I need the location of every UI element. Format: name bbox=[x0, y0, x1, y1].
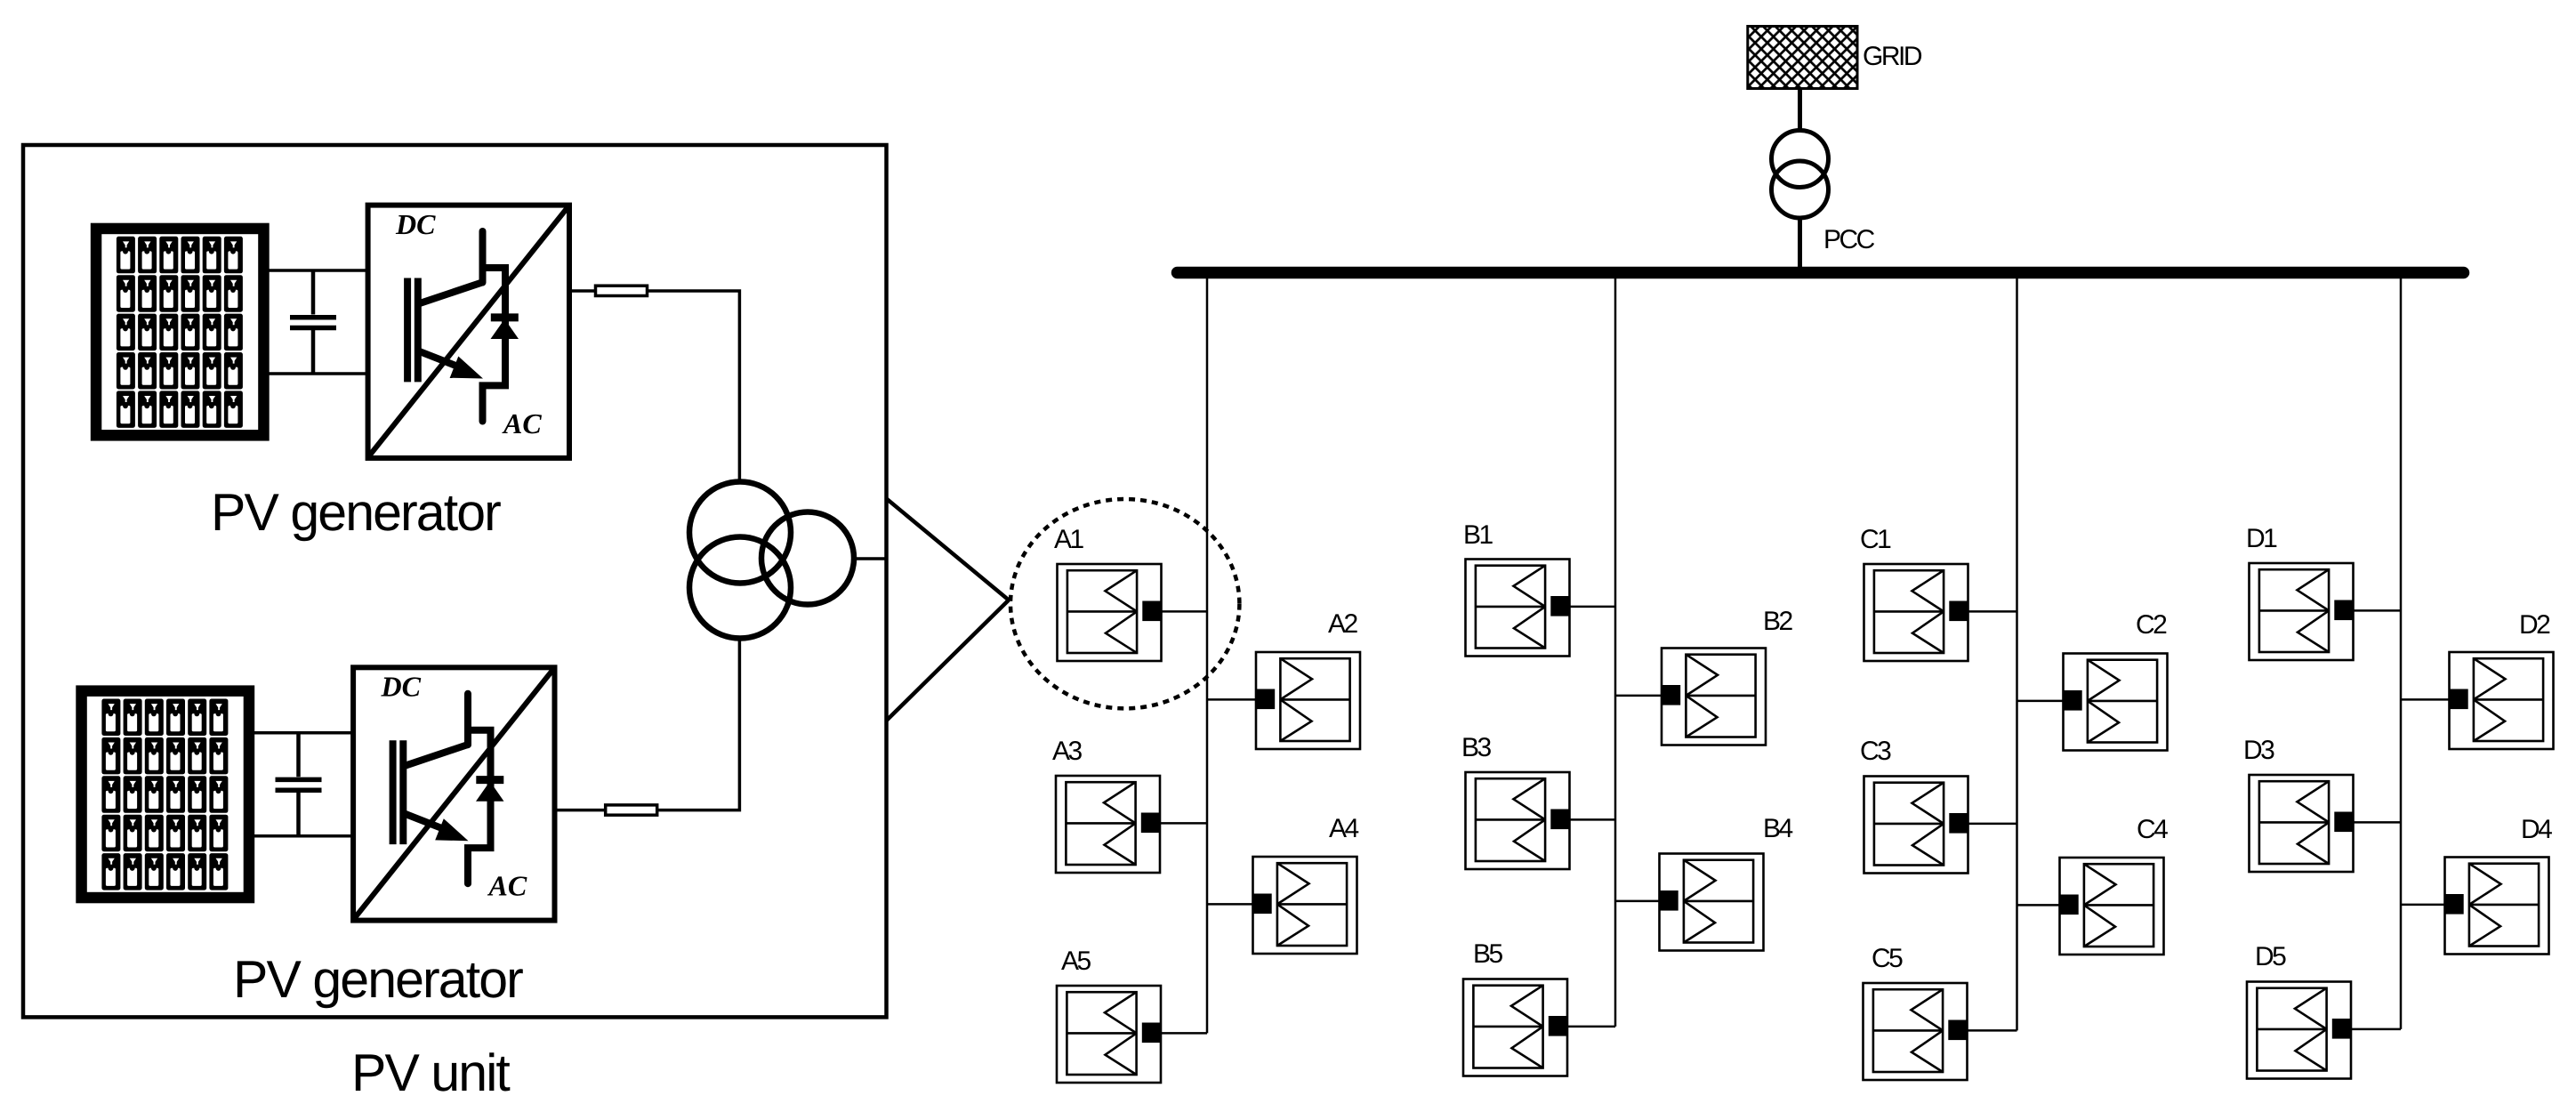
fuse F2 (output of inverter 2) bbox=[555, 809, 606, 812]
wire collector-emitter rail with diode branch bbox=[468, 730, 491, 884]
wire fuse F2 to transformer T1 bbox=[657, 641, 740, 810]
svg-text:A4: A4 bbox=[1329, 814, 1359, 843]
PV unit enclosure box bbox=[23, 145, 887, 1017]
svg-text:PV generator: PV generator bbox=[233, 950, 523, 1009]
PV generator 1 (panel, capacitor, DC/AC inverter) bbox=[96, 205, 569, 458]
svg-text:GRID: GRID bbox=[1863, 42, 1922, 71]
PV generator 2 (panel, capacitor, DC/AC inverter) bbox=[82, 667, 555, 920]
wire D5 to feeder D bbox=[2350, 1028, 2401, 1031]
wire D3 to feeder D bbox=[2353, 821, 2402, 824]
dashed highlight circle around A1 bbox=[1010, 499, 1239, 708]
svg-text:C1: C1 bbox=[1860, 525, 1891, 554]
capacitor C2 (DC link) bbox=[276, 731, 322, 837]
wire B1 to feeder B bbox=[1569, 606, 1616, 608]
PV array panel PV2 bbox=[82, 691, 249, 898]
svg-text:A1: A1 bbox=[1054, 525, 1084, 554]
svg-text:DC: DC bbox=[395, 208, 436, 240]
svg-text:C4: C4 bbox=[2137, 815, 2168, 844]
PV unit symbol B3 bbox=[1466, 772, 1570, 869]
wire feeder A to A4 bbox=[1207, 903, 1254, 906]
wire transformer T1 to box edge bbox=[853, 557, 887, 560]
wire transformer T2 to bus (PCC) bbox=[1798, 218, 1802, 270]
feeder C (vertical line from bus) bbox=[2016, 269, 2018, 1030]
diode D1 (antiparallel) bbox=[491, 318, 519, 339]
wire B3 to feeder B bbox=[1569, 818, 1616, 821]
feeder D (vertical line from bus) bbox=[2400, 269, 2403, 1029]
transistor Q1 (IGBT) bbox=[407, 231, 483, 382]
svg-text:D4: D4 bbox=[2521, 815, 2552, 844]
transistor Q2 (IGBT) bbox=[393, 694, 469, 844]
magnifier line (lower) from PV unit box to A1 bbox=[887, 600, 1010, 721]
PV unit symbol A2 bbox=[1256, 652, 1360, 749]
PV unit symbol C2 bbox=[2064, 654, 2168, 751]
transformer T2 (grid transformer, two circles) bbox=[1772, 131, 1829, 219]
magnifier line (upper) from PV unit box to A1 bbox=[887, 499, 1010, 600]
fuse F1 (output of inverter 1) bbox=[572, 289, 595, 293]
wire D1 to feeder D bbox=[2353, 609, 2402, 612]
svg-text:PV unit: PV unit bbox=[351, 1044, 510, 1102]
svg-text:AC: AC bbox=[502, 407, 542, 439]
wire feeder C to C2 bbox=[2017, 700, 2065, 703]
PV unit symbol D4 bbox=[2445, 858, 2549, 955]
transformer T1 (three-winding, three circles) bbox=[689, 482, 854, 639]
bus bar (PCC busbar) bbox=[1178, 267, 2464, 279]
feeder A (vertical line from bus) bbox=[1206, 269, 1209, 1033]
wire A5 to feeder A bbox=[1160, 1032, 1207, 1035]
GRID source box (crosshatched) bbox=[1748, 27, 1857, 89]
PV unit symbol D3 bbox=[2250, 775, 2354, 872]
wire feeder A to A2 bbox=[1207, 698, 1257, 701]
PV unit symbol B1 bbox=[1466, 560, 1570, 657]
wire feeder B to B4 bbox=[1615, 900, 1661, 903]
inverter U1 box (DC/AC converter) bbox=[368, 205, 569, 458]
capacitor C1 (DC link) bbox=[290, 270, 336, 375]
svg-text:C2: C2 bbox=[2136, 610, 2167, 640]
PV unit symbol D2 bbox=[2450, 652, 2554, 749]
svg-text:B1: B1 bbox=[1463, 520, 1493, 550]
wire feeder D to D4 bbox=[2401, 904, 2446, 907]
svg-text:AC: AC bbox=[487, 870, 527, 902]
wire feeder B to B2 bbox=[1615, 695, 1662, 697]
wire B5 to feeder B bbox=[1566, 1026, 1615, 1028]
wire C3 to feeder C bbox=[1968, 823, 2017, 826]
svg-text:B5: B5 bbox=[1473, 939, 1503, 969]
svg-text:C5: C5 bbox=[1872, 944, 1903, 973]
PV unit symbol B4 bbox=[1660, 854, 1764, 951]
svg-text:D2: D2 bbox=[2519, 610, 2550, 640]
inverter U2 box (DC/AC converter) bbox=[353, 667, 554, 920]
svg-text:C3: C3 bbox=[1860, 737, 1891, 766]
PV array panel PV1 bbox=[96, 229, 263, 435]
svg-text:B4: B4 bbox=[1763, 814, 1793, 843]
PV unit symbol B5 bbox=[1463, 979, 1567, 1076]
wire panel PV1 to inverter (+) bbox=[269, 269, 367, 272]
svg-text:A5: A5 bbox=[1061, 947, 1091, 976]
wire collector-emitter rail with diode branch bbox=[483, 268, 506, 422]
PV unit symbol C3 bbox=[1864, 777, 1968, 874]
svg-text:B2: B2 bbox=[1763, 607, 1793, 636]
svg-text:D1: D1 bbox=[2246, 524, 2277, 553]
svg-text:DC: DC bbox=[381, 671, 422, 703]
PV unit symbol D5 bbox=[2247, 982, 2351, 1079]
PV unit symbol C5 bbox=[1864, 983, 1968, 1080]
PV unit symbol A1 bbox=[1058, 564, 1162, 661]
wire C5 to feeder C bbox=[1967, 1029, 2017, 1032]
PV unit symbol A5 bbox=[1057, 986, 1161, 1083]
PV unit symbol B2 bbox=[1662, 649, 1766, 745]
wire panel PV1 to inverter (-) bbox=[269, 372, 367, 375]
PV unit symbol A3 bbox=[1056, 776, 1160, 873]
wire A3 to feeder A bbox=[1159, 822, 1207, 825]
svg-text:PCC: PCC bbox=[1823, 225, 1875, 254]
wire A1 to feeder A bbox=[1161, 610, 1208, 613]
wire feeder C to C4 bbox=[2017, 904, 2061, 907]
feeder B (vertical line from bus) bbox=[1614, 269, 1617, 1027]
wire feeder D to D2 bbox=[2401, 698, 2451, 701]
svg-text:A3: A3 bbox=[1052, 737, 1083, 766]
PV unit symbol D1 bbox=[2250, 563, 2354, 660]
wire panel PV2 to inverter (-) bbox=[254, 834, 353, 838]
svg-text:D3: D3 bbox=[2243, 736, 2274, 765]
svg-text:D5: D5 bbox=[2255, 942, 2286, 971]
wire fuse F1 to transformer T1 bbox=[648, 291, 740, 479]
diode D2 (antiparallel) bbox=[476, 780, 504, 802]
wire panel PV2 to inverter (+) bbox=[254, 731, 353, 735]
svg-text:B3: B3 bbox=[1461, 733, 1492, 762]
PV unit symbol C1 bbox=[1864, 564, 1968, 661]
PV unit symbol C4 bbox=[2060, 858, 2164, 955]
svg-text:A2: A2 bbox=[1328, 609, 1358, 639]
wire C1 to feeder C bbox=[1968, 610, 2017, 613]
svg-text:PV generator: PV generator bbox=[211, 483, 501, 542]
PV unit symbol A4 bbox=[1253, 857, 1357, 954]
wire GRID to transformer T2 bbox=[1798, 88, 1802, 132]
